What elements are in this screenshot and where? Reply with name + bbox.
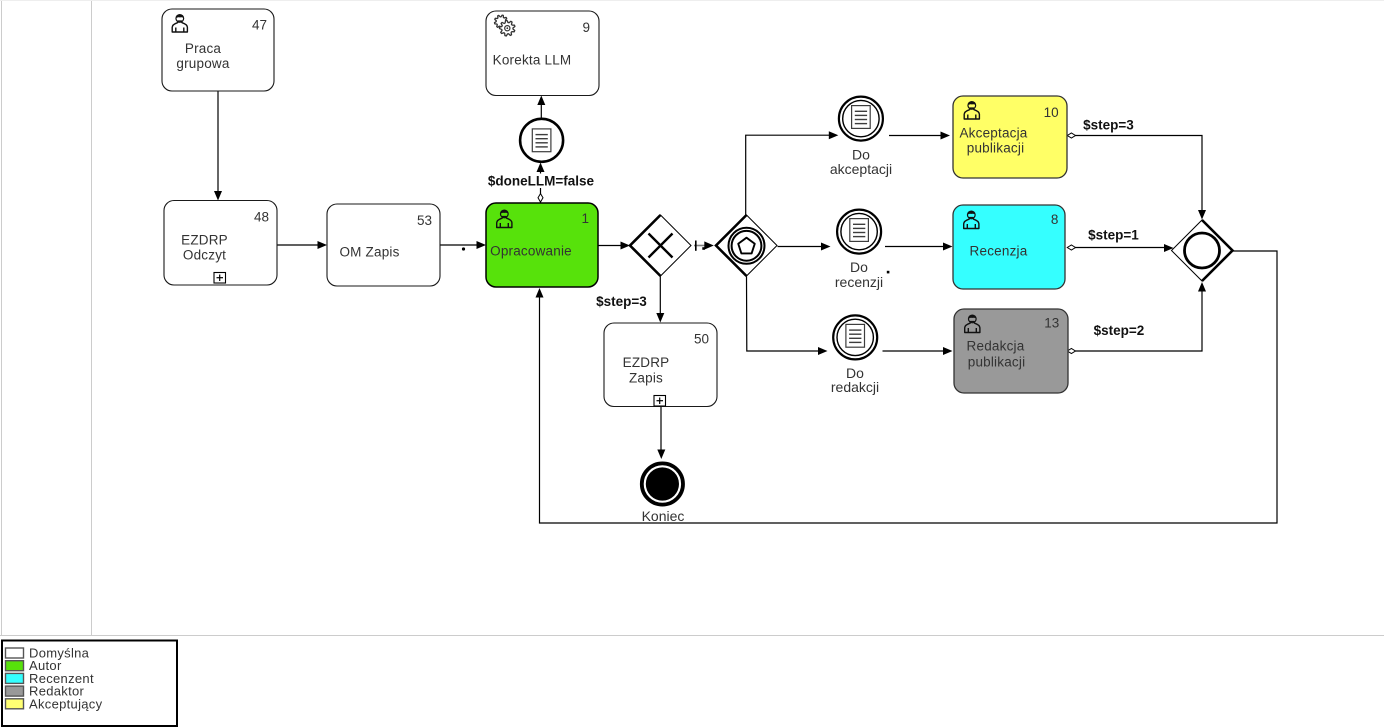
wire gateway X to event gateway with tick and dot xyxy=(694,241,714,251)
subprocess marker EZDRP Zapis xyxy=(654,396,666,407)
svg-text:Korekta LLM: Korekta LLM xyxy=(493,53,572,68)
svg-text:13: 13 xyxy=(1044,315,1059,330)
task Korekta LLM (9) xyxy=(486,11,599,96)
subprocess marker EZDRP Odczyt xyxy=(214,273,226,284)
svg-text:publikacji: publikacji xyxy=(967,141,1025,156)
svg-text:Akceptacja: Akceptacja xyxy=(959,126,1027,141)
legend Redaktor xyxy=(6,684,85,699)
svg-text:8: 8 xyxy=(1051,212,1059,227)
event Do recenzji (double circle, document) xyxy=(835,210,883,290)
user icon Opracowanie xyxy=(497,210,512,227)
legend Autor xyxy=(6,658,62,673)
task OM Zapis (53) xyxy=(327,204,440,286)
wire event gateway down to Do redakcji xyxy=(747,277,828,356)
svg-text:$doneLLM=false: $doneLLM=false xyxy=(488,174,595,189)
wire OM Zapis to Opracowanie xyxy=(440,241,486,251)
wire event gateway up to Do akceptacji xyxy=(746,131,839,216)
svg-text:$step=3: $step=3 xyxy=(596,294,647,309)
svg-text:recenzji: recenzji xyxy=(835,274,883,290)
svg-text:Odczyt: Odczyt xyxy=(183,248,226,263)
legend box xyxy=(2,641,177,727)
wire Opracowanie up to intermediate event (doneLLM) xyxy=(537,163,545,204)
svg-text:Recenzja: Recenzja xyxy=(970,244,1028,259)
wire Praca grupowa to EZDRP Odczyt xyxy=(214,91,222,201)
svg-text:9: 9 xyxy=(582,20,590,35)
svg-text:$step=1: $step=1 xyxy=(1088,228,1139,243)
task Praca grupowa (47) xyxy=(162,9,274,91)
svg-text:50: 50 xyxy=(694,332,709,347)
wire Redakcja publikacji to join gateway ($step=2) xyxy=(1067,282,1206,354)
wire Do recenzji to Recenzja xyxy=(885,243,953,274)
svg-text:EZDRP: EZDRP xyxy=(623,355,670,370)
svg-text:grupowa: grupowa xyxy=(176,56,229,71)
intermediate event doneLLM (single circle, document) xyxy=(520,119,563,162)
label $step=1 xyxy=(1088,228,1139,243)
svg-text:$step=2: $step=2 xyxy=(1094,323,1145,338)
svg-text:Zapis: Zapis xyxy=(629,371,663,386)
task Opracowanie (1) green xyxy=(486,203,598,287)
wire Do redakcji to Redakcja publikacji xyxy=(883,347,953,355)
svg-text:EZDRP: EZDRP xyxy=(181,232,228,247)
wire Akceptacja publikacji to join gateway ($step=3) xyxy=(1067,133,1206,220)
label $step=3 lower xyxy=(596,294,647,309)
user icon Praca grupowa xyxy=(172,15,187,32)
svg-text:Akceptujący: Akceptujący xyxy=(29,696,103,711)
label $step=2 xyxy=(1094,323,1145,338)
svg-text:53: 53 xyxy=(417,213,432,228)
label $step=3 upper xyxy=(1083,118,1134,133)
wire join gateway feedback to Opracowanie xyxy=(536,251,1278,523)
wire Recenzja to join gateway ($step=1) xyxy=(1067,244,1173,252)
wire Do akceptacji to Akceptacja publikacji xyxy=(889,132,950,140)
frame top line xyxy=(0,0,1384,2)
svg-text:Praca: Praca xyxy=(185,41,222,56)
event Do akceptacji (double circle, document) xyxy=(830,97,892,177)
wire intermediate event to Korekta LLM xyxy=(537,96,545,119)
gateway inclusive join (circle) xyxy=(1172,220,1233,281)
task EZDRP Odczyt (48) xyxy=(164,201,277,286)
svg-text:Redakcja: Redakcja xyxy=(967,339,1025,354)
task Recenzja (8) cyan xyxy=(953,205,1065,289)
end event Koniec xyxy=(642,463,685,524)
svg-text:Opracowanie: Opracowanie xyxy=(490,244,572,259)
svg-text:48: 48 xyxy=(254,210,269,225)
svg-text:Koniec: Koniec xyxy=(642,508,685,524)
svg-text:Do: Do xyxy=(850,259,868,275)
legend Akceptujacy xyxy=(6,696,103,711)
svg-text:47: 47 xyxy=(252,17,267,32)
svg-text:akceptacji: akceptacji xyxy=(830,161,892,177)
svg-text:10: 10 xyxy=(1044,105,1059,120)
gateway event-based (pentagon) xyxy=(716,215,777,276)
frame left inner line xyxy=(91,0,93,635)
task Redakcja publikacji (13) gray xyxy=(954,309,1068,393)
user icon Redakcja publikacji xyxy=(965,315,980,332)
wire EZDRP Odczyt to OM Zapis xyxy=(277,241,327,249)
svg-text:publikacji: publikacji xyxy=(968,354,1026,369)
gear icon Korekta LLM xyxy=(494,15,514,36)
svg-text:1: 1 xyxy=(581,211,589,226)
task EZDRP Zapis (50) xyxy=(604,323,717,407)
wire event gateway right to Do recenzji xyxy=(778,243,831,251)
label $doneLLM=false xyxy=(488,174,595,189)
task Akceptacja publikacji (10) yellow xyxy=(953,96,1067,178)
frame bottom line xyxy=(0,635,1384,637)
svg-text:$step=3: $step=3 xyxy=(1083,118,1134,133)
svg-text:redakcji: redakcji xyxy=(831,379,879,395)
wire gateway X down to EZDRP Zapis xyxy=(656,277,664,323)
wire EZDRP Zapis to Koniec xyxy=(657,407,665,460)
svg-text:OM Zapis: OM Zapis xyxy=(339,245,399,260)
event Do redakcji (double circle, document) xyxy=(831,315,879,395)
user icon Akceptacja publikacji xyxy=(964,102,979,119)
gateway X exclusive xyxy=(630,215,691,276)
wire Opracowanie to gateway X xyxy=(598,242,630,250)
legend Recenzent xyxy=(6,671,94,686)
user icon Recenzja xyxy=(964,211,979,228)
frame left outer line xyxy=(1,0,3,635)
legend Domyslna xyxy=(6,646,90,661)
